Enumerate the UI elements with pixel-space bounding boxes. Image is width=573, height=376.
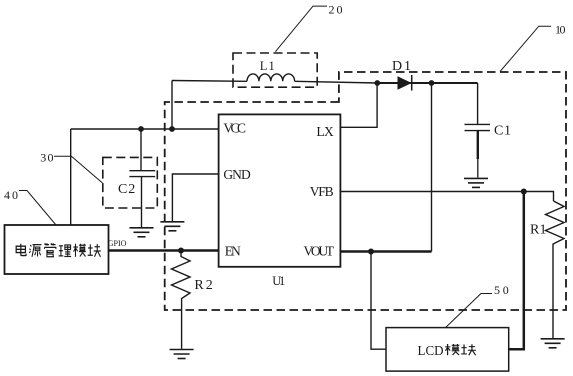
svg-text:GPIO: GPIO	[108, 238, 127, 248]
svg-text:R1: R1	[530, 223, 547, 238]
svg-text:VFB: VFB	[310, 184, 334, 199]
svg-text:C1: C1	[494, 124, 511, 139]
svg-text:R2: R2	[194, 278, 212, 293]
svg-text:20: 20	[329, 2, 343, 16]
svg-text:50: 50	[494, 283, 509, 297]
svg-text:LX: LX	[316, 124, 334, 139]
svg-text:VCC: VCC	[223, 121, 246, 136]
svg-text:EN: EN	[225, 244, 241, 259]
svg-text:U1: U1	[272, 274, 285, 288]
svg-text:LCD: LCD	[418, 344, 444, 359]
svg-text:GND: GND	[223, 167, 251, 182]
svg-text:D1: D1	[392, 59, 411, 74]
svg-text:VOUT: VOUT	[304, 244, 335, 259]
svg-text:40: 40	[4, 188, 18, 202]
svg-text:L1: L1	[260, 59, 275, 73]
svg-text:10: 10	[555, 22, 566, 36]
svg-text:C2: C2	[118, 182, 135, 197]
svg-text:30: 30	[40, 151, 53, 165]
